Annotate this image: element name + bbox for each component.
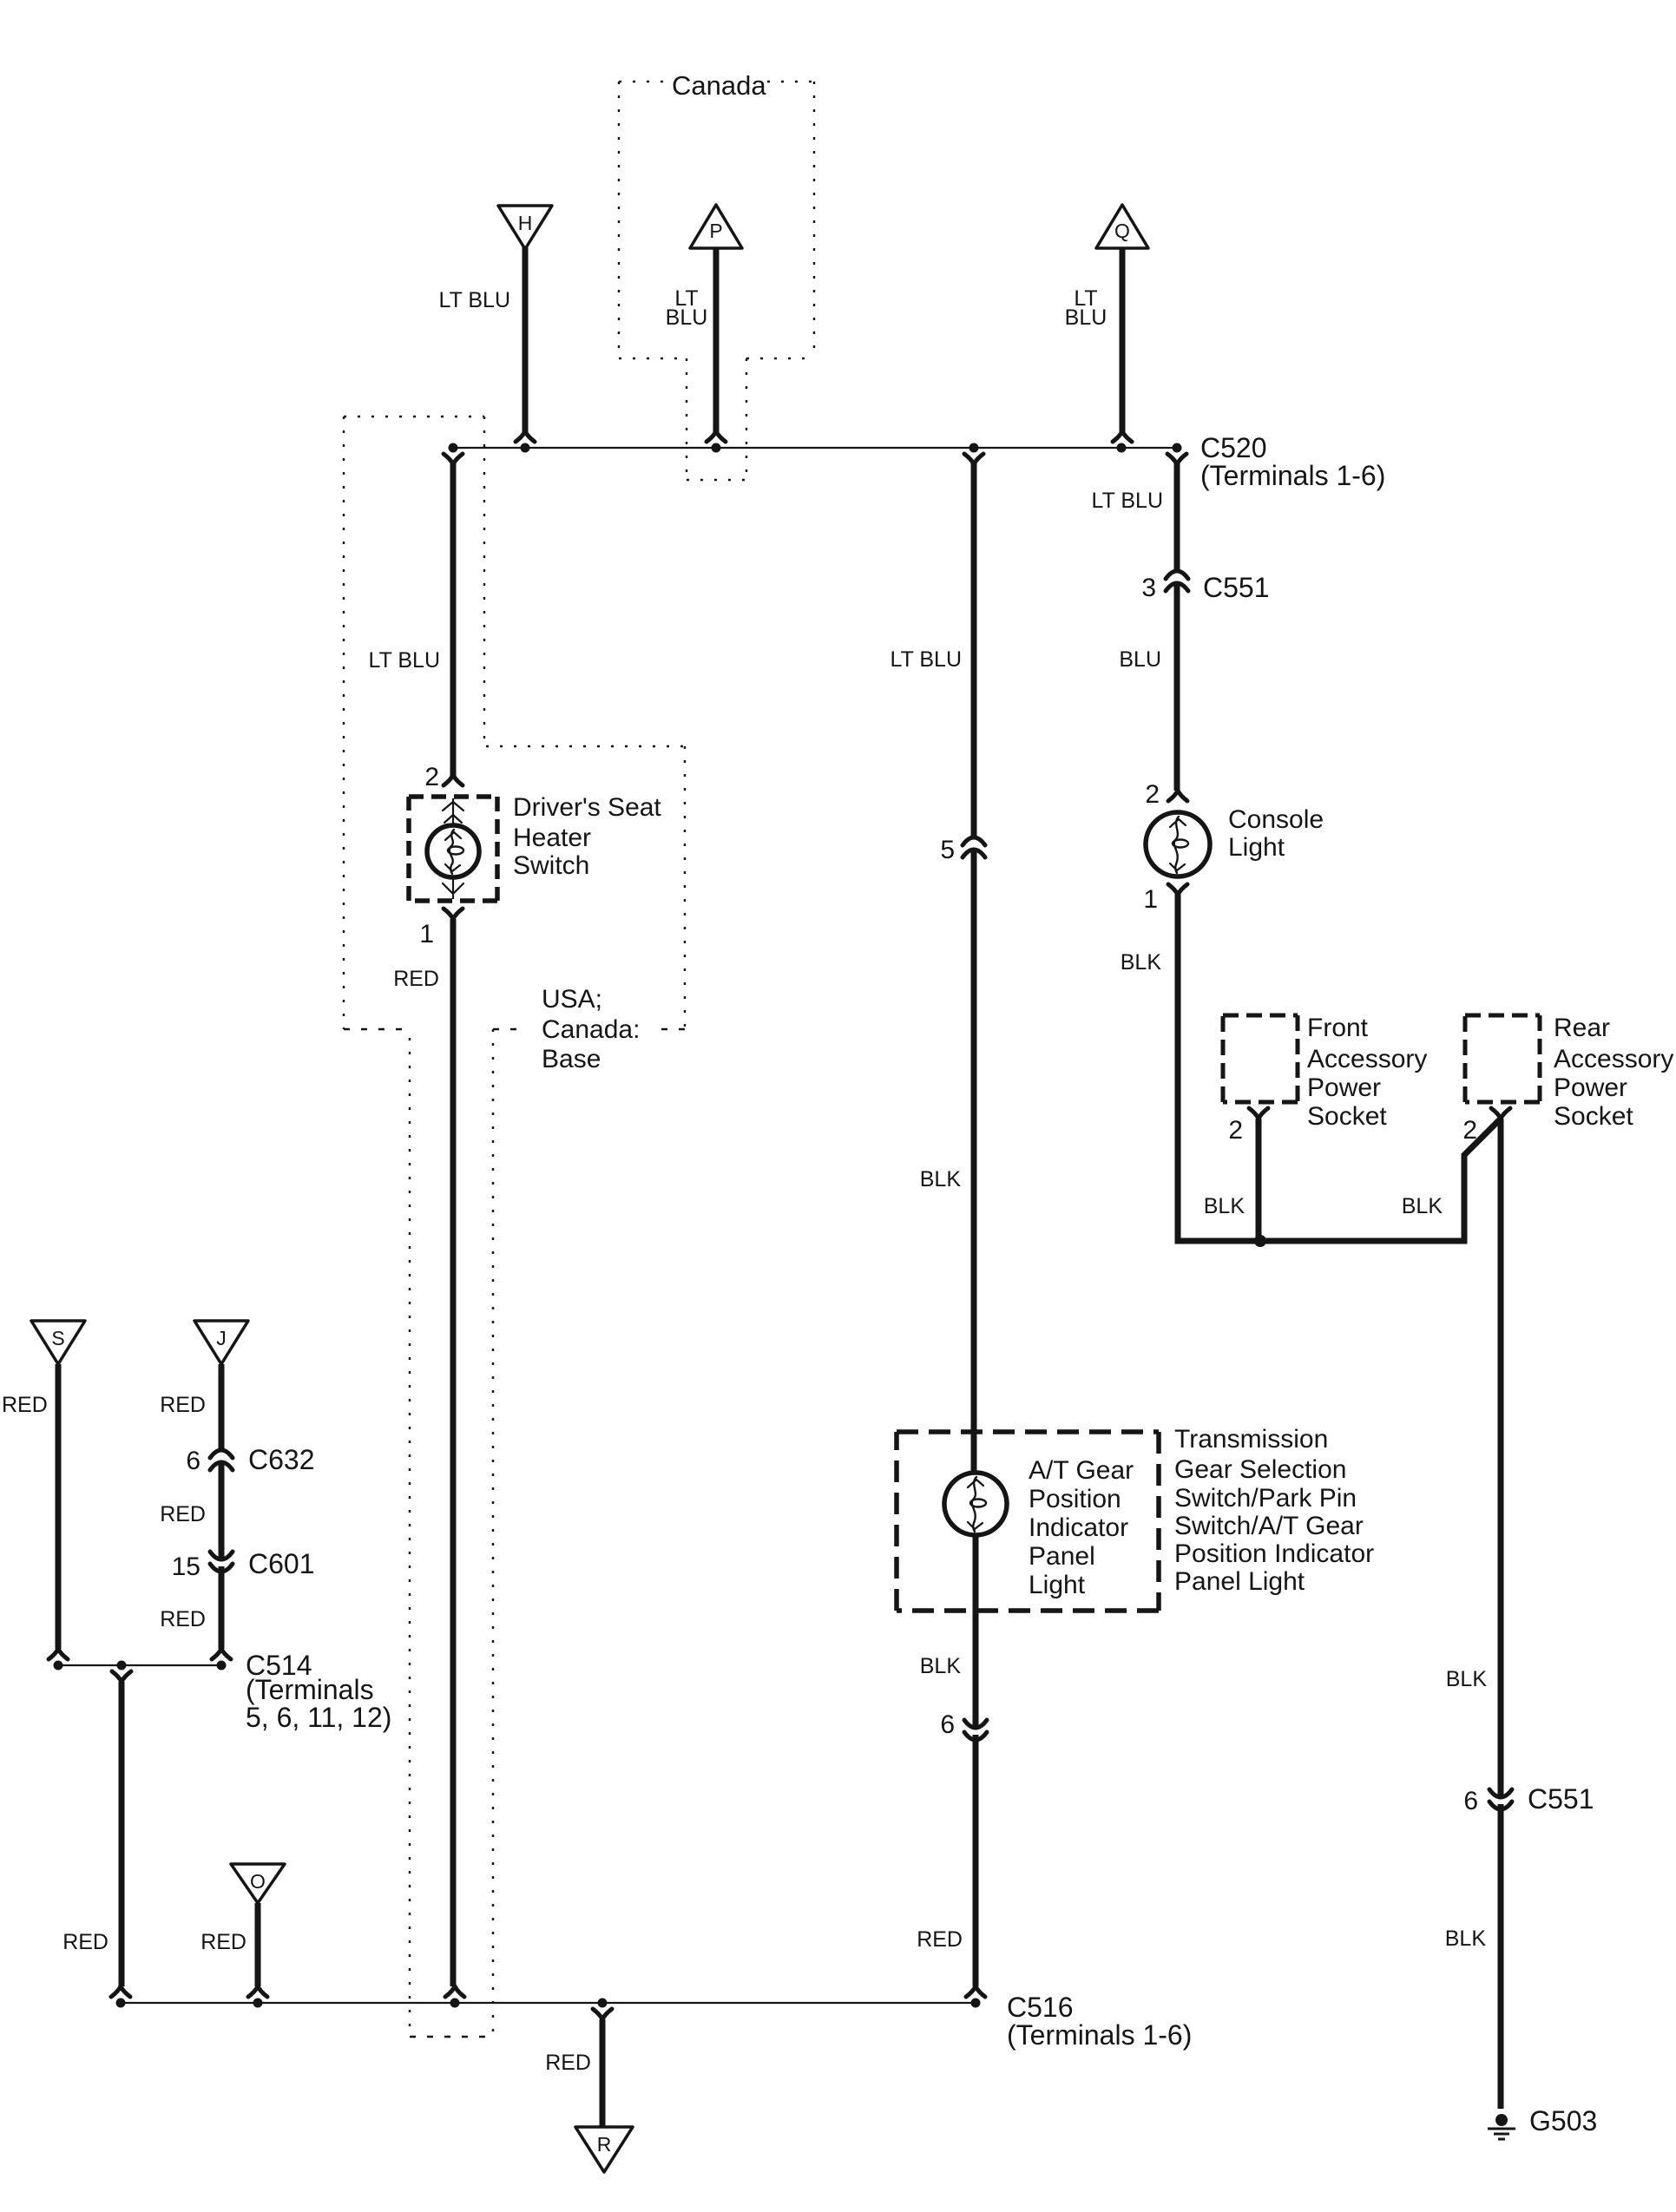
node junction R	[598, 1999, 608, 2008]
label pin 2 (heater)	[424, 763, 439, 791]
wire P to bus LT BLU	[707, 248, 726, 442]
svg-text:Base: Base	[542, 1045, 601, 1073]
svg-text:C516: C516	[1007, 1992, 1074, 2023]
connector triangle R	[575, 2127, 633, 2172]
wire rear socket pin2	[1491, 1108, 1510, 1119]
heater switch internal pin top	[443, 798, 463, 824]
label Front Accessory Power Socket	[1307, 1014, 1427, 1131]
label LT BLU (drop)	[891, 647, 962, 672]
wire connector5 to AT lamp BLK	[971, 850, 977, 1474]
component Driver's Seat Heater Switch label	[513, 793, 661, 880]
connector triangle Q	[1096, 205, 1148, 248]
connector triangle P	[690, 205, 742, 248]
svg-text:LT BLU: LT BLU	[891, 647, 962, 672]
svg-text:J: J	[216, 1327, 227, 1349]
svg-text:Gear Selection: Gear Selection	[1174, 1455, 1346, 1484]
label pin 15	[172, 1552, 200, 1581]
wire H to bus LT BLU	[516, 246, 535, 442]
svg-text:RED: RED	[160, 1607, 206, 1631]
label pin 5	[940, 836, 955, 864]
svg-text:O: O	[250, 1870, 266, 1893]
svg-text:Position: Position	[1029, 1485, 1121, 1513]
svg-text:Front: Front	[1307, 1014, 1369, 1042]
svg-text:Light: Light	[1228, 833, 1285, 862]
node junction S drop	[116, 1999, 126, 2008]
label RED (lower J)	[160, 1607, 206, 1631]
label BLK (console)	[1121, 950, 1162, 975]
label LT BLU (P)	[666, 286, 708, 330]
wire rear socket to connector6 BLK	[1498, 1119, 1504, 1798]
svg-text:2: 2	[1145, 780, 1160, 809]
component Rear Accessory Power Socket box	[1465, 1015, 1540, 1102]
svg-text:Rear: Rear	[1554, 1014, 1610, 1042]
svg-text:1: 1	[419, 920, 434, 948]
label RED (O)	[200, 1930, 246, 1954]
label BLK (front socket)	[1204, 1194, 1245, 1218]
node junction O	[253, 1999, 263, 2008]
node junction A/T RED	[971, 1999, 981, 2008]
node junction P	[712, 443, 721, 453]
svg-text:5, 6, 11, 12): 5, 6, 11, 12)	[246, 1702, 391, 1733]
wire C632 to C601 RED	[219, 1462, 225, 1560]
label C551 (bottom)	[1528, 1783, 1594, 1815]
svg-text:Accessory: Accessory	[1307, 1045, 1427, 1073]
svg-text:2: 2	[1228, 1116, 1243, 1145]
component Front Accessory Power Socket box	[1223, 1015, 1298, 1102]
label LT BLU (heater)	[369, 648, 440, 673]
node junction S	[54, 1661, 63, 1670]
svg-text:A/T Gear: A/T Gear	[1029, 1456, 1134, 1485]
svg-text:RED: RED	[62, 1930, 108, 1954]
svg-text:6: 6	[940, 1710, 955, 1739]
svg-text:Power: Power	[1554, 1073, 1627, 1102]
svg-text:P: P	[709, 220, 722, 242]
label G503	[1529, 2105, 1597, 2137]
svg-text:Light: Light	[1029, 1571, 1086, 1599]
label RED (mid J)	[160, 1502, 206, 1526]
svg-text:G503: G503	[1529, 2105, 1597, 2137]
wire Q to bus LT BLU	[1113, 248, 1132, 442]
wire C516 bus	[121, 2002, 976, 2004]
connector inline 6	[964, 1720, 987, 1740]
svg-text:RED: RED	[200, 1930, 246, 1954]
svg-text:C632: C632	[248, 1444, 315, 1475]
label USA; Canada: Base	[542, 985, 640, 1073]
lamp heater switch	[427, 825, 479, 877]
svg-text:Driver's Seat: Driver's Seat	[513, 793, 661, 822]
svg-text:BLK: BLK	[1446, 1667, 1488, 1691]
svg-text:Position Indicator: Position Indicator	[1174, 1539, 1374, 1568]
svg-text:LT BLU: LT BLU	[1092, 489, 1163, 513]
svg-text:2: 2	[1462, 1116, 1477, 1145]
svg-text:Console: Console	[1228, 805, 1324, 834]
svg-text:BLK: BLK	[920, 1654, 962, 1678]
label pin 1 (console)	[1143, 885, 1158, 914]
label RED (C514 drop)	[62, 1930, 108, 1954]
label RED (R)	[545, 2051, 591, 2075]
svg-text:RED: RED	[160, 1502, 206, 1526]
label C516 (Terminals 1-6)	[1007, 1992, 1192, 2051]
label BLK (ground wire)	[1445, 1926, 1487, 1951]
svg-text:(Terminals: (Terminals	[246, 1674, 374, 1705]
node junction C520 right end	[1173, 443, 1182, 453]
label BLU	[1119, 647, 1161, 672]
wire connector3 to console light BLU	[1168, 583, 1187, 801]
svg-text:H: H	[518, 212, 533, 234]
label BLK (rear socket)	[1402, 1194, 1443, 1218]
label LT BLU (H)	[439, 288, 510, 312]
node junction Q	[1117, 443, 1127, 453]
svg-text:Switch/Park Pin: Switch/Park Pin	[1174, 1484, 1357, 1513]
wire connector to ground BLK	[1498, 1804, 1504, 2109]
label BLK (above A/T lamp)	[920, 1167, 962, 1191]
label pin 2 (console)	[1145, 780, 1160, 809]
label pin 2 (front socket)	[1228, 1116, 1243, 1145]
svg-text:R: R	[597, 2133, 612, 2156]
label C514 (Terminals 5,6,11,12)	[246, 1650, 391, 1733]
svg-text:2: 2	[424, 763, 439, 791]
node junction J	[217, 1661, 227, 1670]
dashed box USA/Canada-Base upper-left	[344, 417, 484, 1029]
svg-text:Switch/A/T Gear: Switch/A/T Gear	[1174, 1512, 1364, 1540]
svg-text:Heater: Heater	[513, 824, 591, 852]
svg-text:6: 6	[1463, 1787, 1478, 1815]
label C601	[248, 1548, 315, 1579]
svg-text:Accessory: Accessory	[1554, 1045, 1673, 1073]
svg-text:Transmission: Transmission	[1174, 1425, 1328, 1454]
wire C516 to R RED	[593, 2009, 612, 2127]
svg-text:(Terminals 1-6): (Terminals 1-6)	[1200, 460, 1385, 491]
svg-text:RED: RED	[393, 967, 439, 991]
node junction LT BLU drop	[969, 443, 979, 453]
label C520 (Terminals 1-6)	[1200, 432, 1385, 491]
label Console Light	[1228, 805, 1324, 862]
wire J to C632 RED	[219, 1364, 225, 1450]
svg-text:Indicator: Indicator	[1029, 1513, 1128, 1542]
svg-text:BLU: BLU	[666, 305, 708, 330]
wire connector6 to C516 RED	[966, 1735, 985, 1997]
component Driver's Seat Heater Switch box	[409, 797, 497, 901]
lamp console light	[1146, 812, 1210, 876]
svg-text:RED: RED	[917, 1927, 963, 1952]
wire console light pin1 BLK down and across	[1168, 884, 1499, 1241]
label LT BLU (Q)	[1065, 286, 1107, 330]
label RED (heater)	[393, 967, 439, 991]
svg-text:Power: Power	[1307, 1073, 1381, 1102]
svg-text:15: 15	[172, 1552, 200, 1581]
connector inline 6 C632	[210, 1450, 233, 1470]
dashed box Canada variant (top)	[619, 82, 814, 358]
label RED (S)	[2, 1393, 48, 1417]
svg-text:1: 1	[1143, 885, 1158, 914]
svg-text:BLU: BLU	[1119, 647, 1161, 672]
wire front socket pin2 BLK	[1249, 1108, 1268, 1238]
svg-text:BLK: BLK	[1402, 1194, 1443, 1218]
svg-text:C520: C520	[1200, 432, 1267, 463]
node junction BLK ground bus	[1254, 1235, 1266, 1247]
node junction C520 heater-switch	[449, 443, 458, 453]
dashed box Canada wire P (narrow)	[687, 358, 746, 480]
svg-text:C601: C601	[248, 1548, 315, 1579]
svg-text:RED: RED	[2, 1393, 48, 1417]
connector inline 3 C551	[1166, 571, 1188, 591]
connector triangle J	[194, 1321, 248, 1364]
label pin 2 (rear socket)	[1462, 1116, 1477, 1145]
wire C601 to C514 RED	[212, 1566, 231, 1659]
connector triangle S	[31, 1321, 85, 1364]
svg-text:BLK: BLK	[1445, 1926, 1487, 1951]
label pin 1 (heater)	[419, 920, 434, 948]
svg-text:LT BLU: LT BLU	[369, 648, 440, 673]
svg-text:S: S	[51, 1327, 64, 1349]
label BLK (below A/T lamp)	[920, 1654, 962, 1678]
node junction C514 drop	[117, 1661, 127, 1670]
node junction H	[521, 443, 530, 453]
label Canada	[672, 70, 766, 101]
svg-text:Canada:: Canada:	[542, 1015, 640, 1044]
node junction heater RED	[450, 1999, 460, 2008]
svg-text:RED: RED	[160, 1393, 206, 1417]
svg-text:BLK: BLK	[920, 1167, 962, 1191]
dashed box lower-left tall	[410, 1029, 493, 2037]
lamp A/T gear position indicator	[944, 1473, 1007, 1535]
label RED (J)	[160, 1393, 206, 1417]
svg-text:C551: C551	[1203, 572, 1270, 603]
wire C520 bus	[452, 447, 1177, 449]
label pin 3	[1141, 574, 1156, 602]
wire bus to heater switch pin2 LT BLU	[444, 454, 463, 785]
svg-text:BLK: BLK	[1204, 1194, 1245, 1218]
connector triangle O	[231, 1864, 285, 1903]
svg-text:BLK: BLK	[1121, 950, 1162, 975]
wire S RED	[49, 1364, 68, 1659]
svg-text:USA;: USA;	[542, 985, 602, 1014]
svg-text:3: 3	[1141, 574, 1156, 602]
svg-text:(Terminals 1-6): (Terminals 1-6)	[1007, 2019, 1192, 2051]
svg-text:Canada: Canada	[672, 70, 766, 101]
svg-text:Socket: Socket	[1554, 1102, 1633, 1131]
connector inline 5	[963, 837, 985, 857]
connector inline 6 C551 (bottom)	[1489, 1789, 1512, 1809]
label C632	[248, 1444, 315, 1475]
svg-text:Socket: Socket	[1307, 1102, 1387, 1131]
label A/T Gear Position Indicator Panel Light	[1029, 1456, 1134, 1599]
svg-text:Q: Q	[1114, 220, 1130, 242]
wire O RED	[248, 1903, 267, 1997]
svg-text:6: 6	[186, 1447, 200, 1475]
dashed box USA/Canada-Base right	[344, 746, 686, 1029]
label BLK (rear socket wire upper)	[1446, 1667, 1488, 1691]
component A/T Gear Position Indicator Panel Light box	[897, 1432, 1159, 1611]
connector triangle H	[498, 206, 552, 249]
wire C514 to C516 RED	[111, 1671, 131, 1997]
svg-text:C551: C551	[1528, 1783, 1594, 1815]
wire AT lamp to connector 6 BLK	[973, 1535, 979, 1729]
label Transmission Gear Selection Switch/Park Pin Switch/A/T Gear Position Indicator Panel Light	[1174, 1425, 1374, 1596]
label pin 6 (bottom)	[1463, 1787, 1478, 1815]
ground G503	[1488, 2114, 1515, 2139]
svg-text:BLU: BLU	[1065, 305, 1107, 330]
label Rear Accessory Power Socket	[1554, 1014, 1673, 1131]
wire C514 bus	[57, 1664, 220, 1666]
svg-text:5: 5	[940, 836, 955, 864]
svg-text:LT BLU: LT BLU	[439, 288, 510, 312]
label pin 6 (C632)	[186, 1447, 200, 1475]
label C551 (top)	[1203, 572, 1270, 603]
svg-text:Switch: Switch	[513, 851, 589, 880]
svg-text:Panel Light: Panel Light	[1174, 1567, 1305, 1596]
wire C520 to connector3 LT BLU	[1167, 454, 1186, 571]
wire heater switch pin1 RED	[444, 909, 464, 1997]
label LT BLU (console)	[1092, 489, 1163, 513]
label RED (A/T drop)	[917, 1927, 963, 1952]
svg-text:Panel: Panel	[1029, 1542, 1095, 1571]
heater switch internal pin bottom	[443, 879, 463, 899]
label pin 6	[940, 1710, 955, 1739]
svg-text:RED: RED	[545, 2051, 591, 2075]
connector inline 15 C601	[210, 1552, 233, 1572]
wire bus to connector 5 LT BLU	[964, 454, 983, 837]
